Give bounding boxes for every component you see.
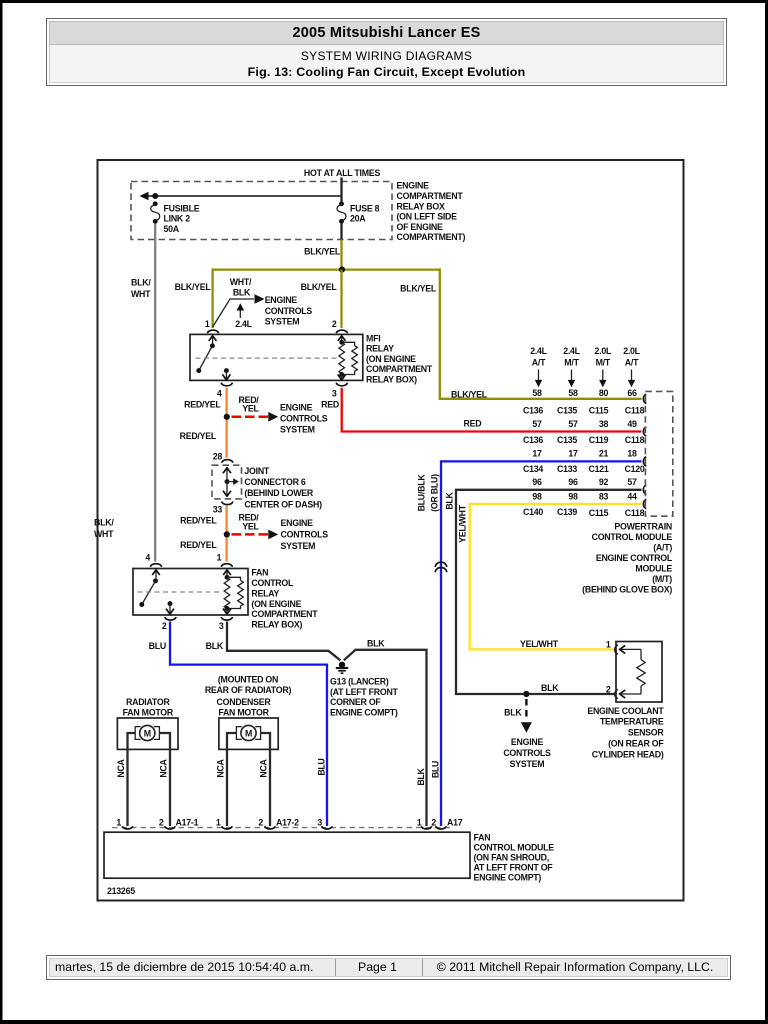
MFI relay box (190, 334, 363, 380)
svg-text:YEL/WHT: YEL/WHT (458, 504, 468, 543)
svg-text:C136: C136 (523, 406, 543, 416)
svg-text:NCA: NCA (116, 758, 126, 777)
svg-text:(A/T): (A/T) (653, 542, 672, 552)
svg-text:CONTROL MODULE: CONTROL MODULE (592, 532, 673, 542)
pin A17-1/2 cup (165, 826, 175, 829)
svg-text:JOINT: JOINT (244, 466, 270, 476)
label BLK/WHT lower (94, 518, 114, 540)
label WHT/BLK (230, 277, 252, 298)
svg-text:3: 3 (332, 388, 337, 398)
svg-text:2: 2 (332, 319, 337, 329)
svg-text:ENGINE: ENGINE (511, 737, 544, 747)
svg-text:(OR BLU): (OR BLU) (430, 474, 440, 512)
svg-text:57: 57 (532, 419, 542, 429)
svg-text:SYSTEM: SYSTEM (265, 317, 300, 327)
svg-text:BLK/YEL: BLK/YEL (451, 389, 488, 399)
wire bus inside relay box (143, 195, 342, 197)
svg-text:BLK: BLK (233, 288, 251, 298)
svg-text:BLK/YEL: BLK/YEL (304, 247, 341, 257)
svg-text:A17-1: A17-1 (176, 817, 199, 827)
svg-text:ENGINE CONTROL: ENGINE CONTROL (596, 553, 673, 563)
svg-text:RED: RED (464, 419, 482, 429)
svg-text:NCA: NCA (259, 758, 269, 777)
svg-text:NCA: NCA (216, 758, 226, 777)
svg-text:2: 2 (258, 817, 263, 827)
svg-text:(AT LEFT FRONT: (AT LEFT FRONT (330, 687, 399, 697)
svg-text:4: 4 (145, 553, 150, 563)
svg-text:CONTROLS: CONTROLS (265, 306, 313, 316)
fan control relay label (251, 568, 318, 630)
svg-text:CONNECTOR 6: CONNECTOR 6 (244, 477, 305, 487)
MFI relay label (366, 333, 433, 384)
PCM row 2 connectors C136 C135 C119 C118 (523, 435, 645, 445)
svg-text:COMPARTMENT: COMPARTMENT (251, 609, 318, 619)
svg-text:1: 1 (216, 817, 221, 827)
svg-text:FUSE 8: FUSE 8 (350, 203, 380, 213)
svg-text:RELAY BOX): RELAY BOX) (251, 620, 302, 630)
svg-text:M: M (245, 729, 252, 739)
pin A17/3 cup (322, 826, 332, 829)
svg-text:WHT: WHT (131, 289, 151, 299)
svg-text:C135: C135 (557, 406, 577, 416)
svg-text:57: 57 (568, 419, 578, 429)
svg-text:COMPARTMENT): COMPARTMENT) (397, 232, 466, 242)
wire RED/YEL from MFI pin 4 down (225, 388, 227, 458)
engine controls system label 2 (280, 403, 328, 435)
engine compartment relay box (dashed) (131, 182, 392, 240)
svg-text:CONTROLS: CONTROLS (281, 530, 329, 540)
arrow engine controls top (255, 294, 265, 303)
svg-text:(ON LEFT SIDE: (ON LEFT SIDE (397, 212, 458, 222)
svg-text:2.4L: 2.4L (563, 346, 580, 356)
label BLK/WHT upper (131, 278, 151, 299)
svg-text:58: 58 (532, 388, 542, 398)
svg-text:(ON ENGINE: (ON ENGINE (251, 599, 301, 609)
ECT sensor box (616, 642, 662, 703)
svg-text:CONDENSER: CONDENSER (217, 697, 272, 707)
MFI pin4 contact (222, 368, 230, 380)
svg-text:A/T: A/T (532, 358, 546, 368)
ground G13 label (330, 677, 399, 718)
PCM row 4 pins 96 96 92 57 (532, 477, 637, 487)
svg-text:CORNER OF: CORNER OF (330, 697, 381, 707)
svg-text:BLK: BLK (541, 683, 559, 693)
label 2.4L with up arrow (235, 303, 252, 329)
svg-text:57: 57 (627, 477, 637, 487)
svg-text:66: 66 (627, 388, 637, 398)
joint connector 6 (dashed) (212, 465, 242, 499)
condenser fan motor M2 (219, 718, 278, 826)
svg-text:20A: 20A (350, 214, 366, 224)
svg-text:M/T: M/T (564, 358, 579, 368)
PCM column header 2.4L M/T (563, 346, 580, 387)
svg-text:18: 18 (627, 448, 637, 458)
svg-text:BLK/: BLK/ (94, 518, 114, 528)
svg-text:C118: C118 (625, 508, 645, 518)
svg-text:96: 96 (568, 477, 578, 487)
svg-text:C118: C118 (625, 406, 645, 416)
svg-text:28: 28 (213, 452, 223, 462)
svg-text:ENGINE COMPT): ENGINE COMPT) (474, 872, 542, 882)
svg-text:FAN: FAN (251, 568, 268, 578)
svg-text:M/T: M/T (596, 358, 611, 368)
svg-text:C133: C133 (557, 464, 577, 474)
svg-text:1: 1 (116, 817, 121, 827)
svg-text:(ON ENGINE: (ON ENGINE (366, 354, 416, 364)
svg-text:HOT AT ALL TIMES: HOT AT ALL TIMES (304, 168, 381, 178)
svg-text:SENSOR: SENSOR (628, 728, 665, 738)
svg-text:MFI: MFI (366, 333, 380, 343)
svg-text:RED/YEL: RED/YEL (180, 540, 217, 550)
svg-text:CYLINDER HEAD): CYLINDER HEAD) (592, 749, 664, 759)
svg-text:BLU: BLU (431, 761, 441, 778)
svg-text:COMPARTMENT: COMPARTMENT (397, 191, 464, 201)
svg-text:A17: A17 (447, 817, 463, 827)
label radiator fan motor (123, 697, 174, 717)
svg-text:BLK/: BLK/ (131, 278, 151, 288)
svg-text:FAN: FAN (474, 833, 491, 843)
fan relay dashed divider (138, 591, 221, 593)
svg-text:2.0L: 2.0L (594, 346, 611, 356)
svg-text:21: 21 (599, 448, 609, 458)
svg-text:BLK: BLK (504, 707, 522, 717)
PCM pin arc BLK (643, 485, 646, 494)
connector A17 dashed line (112, 827, 452, 829)
svg-text:BLK/YEL: BLK/YEL (400, 284, 437, 294)
svg-text:ENGINE COOLANT: ENGINE COOLANT (587, 706, 664, 716)
svg-text:MODULE: MODULE (635, 563, 672, 573)
svg-text:BLK/YEL: BLK/YEL (175, 282, 212, 292)
label RED/YEL tap 2 (238, 513, 259, 532)
svg-text:A17-2: A17-2 (276, 817, 299, 827)
svg-text:92: 92 (599, 477, 609, 487)
dashed RED tap arrow 2 (232, 533, 269, 536)
svg-text:YEL: YEL (242, 404, 259, 414)
svg-text:RED: RED (321, 399, 339, 409)
svg-text:YEL: YEL (242, 521, 259, 531)
PCM pin arc RED (643, 427, 646, 436)
svg-text:WHT: WHT (94, 529, 114, 539)
wire BLK/YEL right branch down (440, 268, 642, 398)
svg-text:C119: C119 (589, 435, 609, 445)
svg-text:98: 98 (532, 491, 542, 501)
svg-text:M: M (144, 729, 151, 739)
svg-text:C121: C121 (588, 464, 608, 474)
engine compartment relay box label (397, 181, 466, 243)
svg-text:96: 96 (532, 477, 542, 487)
svg-text:SYSTEM: SYSTEM (280, 425, 315, 435)
PCM row 1 connectors C136 C135 C115 C118 (523, 406, 645, 416)
wire BLK/YEL fuse8 below fuse (340, 224, 342, 241)
page border frame (0, 0, 768, 3)
powertrain control module box (dashed) (645, 391, 672, 516)
svg-text:C134: C134 (523, 464, 543, 474)
header title block (46, 18, 727, 86)
svg-text:BLU: BLU (149, 641, 166, 651)
powertrain control module label (582, 521, 673, 594)
svg-text:NCA: NCA (159, 758, 169, 777)
svg-text:(ON FAN SHROUD,: (ON FAN SHROUD, (474, 853, 549, 863)
svg-text:49: 49 (627, 419, 637, 429)
fan relay switch (139, 570, 159, 607)
svg-text:AT LEFT FRONT OF: AT LEFT FRONT OF (474, 862, 554, 872)
junction RED/YEL tap 1 (224, 414, 230, 420)
wire battery feed vertical (340, 178, 342, 204)
svg-text:(M/T): (M/T) (652, 574, 672, 584)
svg-text:2: 2 (431, 817, 436, 827)
pin 33 joint connector (222, 502, 233, 505)
svg-text:2.0L: 2.0L (623, 346, 640, 356)
label mounted on rear of radiator (205, 675, 292, 695)
pin A17-2/2 cup (265, 826, 275, 829)
arrow feed left (140, 192, 149, 200)
wire BLK/YEL center branch to MFI pin 2 (340, 270, 342, 328)
svg-text:ENGINE: ENGINE (265, 295, 298, 305)
svg-text:C135: C135 (557, 435, 577, 445)
svg-text:COMPARTMENT: COMPARTMENT (366, 364, 433, 374)
svg-text:FAN MOTOR: FAN MOTOR (123, 707, 174, 717)
fuse 8 20A (337, 201, 380, 223)
svg-text:YEL/WHT: YEL/WHT (520, 639, 559, 649)
PCM row 3 connectors C134 C133 C121 C120 (523, 464, 645, 474)
wire BLK/WHT left vertical (fusible link to fan control relay pin 4) (154, 224, 156, 562)
pin A17/1 cup (421, 826, 431, 829)
PCM row 3 pins 17 17 21 18 (532, 448, 637, 458)
svg-text:(ON REAR OF: (ON REAR OF (608, 739, 664, 749)
svg-text:50A: 50A (164, 224, 180, 234)
PCM pin arc BLK/YEL (643, 394, 646, 403)
label condenser fan motor (217, 697, 272, 717)
svg-text:BLK: BLK (367, 638, 385, 648)
svg-text:CONTROLS: CONTROLS (280, 414, 328, 424)
svg-text:ENGINE COMPT): ENGINE COMPT) (330, 708, 398, 718)
joint connector 6 label (244, 466, 322, 510)
wire BLK/YEL vertical to junction (340, 240, 342, 270)
svg-text:38: 38 (599, 419, 609, 429)
footer bar (46, 955, 731, 980)
pin labels connector A17-2 (216, 817, 299, 827)
svg-text:(BEHIND GLOVE BOX): (BEHIND GLOVE BOX) (582, 584, 672, 594)
svg-text:LINK 2: LINK 2 (164, 214, 191, 224)
junction RED/YEL tap 2 (224, 531, 230, 537)
label RED/YEL tap 1 (238, 395, 259, 414)
ECT thermistor (620, 645, 646, 698)
pin A17/2 cup (436, 826, 446, 829)
svg-text:CONTROLS: CONTROLS (503, 748, 551, 758)
fan control relay box (133, 569, 248, 616)
svg-text:RED/YEL: RED/YEL (180, 431, 217, 441)
PCM column header 2.4L A/T (530, 346, 547, 387)
wire BLU PCM row 3 (441, 461, 642, 826)
pin labels connector A17-1 (116, 817, 198, 827)
svg-text:BLU: BLU (317, 758, 327, 775)
svg-text:98: 98 (568, 491, 578, 501)
svg-text:2.4L: 2.4L (530, 346, 547, 356)
pin A17-2/1 cup (222, 826, 232, 829)
wire BLK/YEL horizontal bus (213, 268, 440, 270)
engine controls system label top (265, 295, 313, 327)
svg-text:RED/YEL: RED/YEL (184, 400, 221, 410)
wire YEL/WHT PCM row 5 to ECT pin 1 (470, 504, 642, 649)
svg-text:A/T: A/T (625, 358, 639, 368)
svg-text:1: 1 (417, 817, 422, 827)
svg-text:33: 33 (213, 505, 223, 515)
wire BLK from relay pin 3 to ground (227, 622, 340, 661)
pin 2 fan control relay (165, 617, 176, 620)
svg-text:(BEHIND LOWER: (BEHIND LOWER (244, 488, 313, 498)
MFI switch (196, 336, 216, 373)
svg-text:BLU/BLK: BLU/BLK (417, 474, 427, 512)
svg-text:C139: C139 (557, 507, 577, 517)
svg-text:C136: C136 (523, 435, 543, 445)
svg-text:CONTROL MODULE: CONTROL MODULE (474, 843, 555, 853)
svg-text:RELAY: RELAY (366, 344, 394, 354)
svg-text:BLK: BLK (445, 491, 455, 509)
PCM pin arc BLU (643, 457, 646, 466)
svg-text:83: 83 (599, 491, 609, 501)
svg-text:RELAY BOX: RELAY BOX (397, 201, 445, 211)
svg-text:2: 2 (162, 621, 167, 631)
dashed RED tap arrow 1 (232, 416, 269, 419)
joint connector internal (223, 468, 239, 496)
svg-text:3: 3 (219, 621, 224, 631)
radiator fan motor M1 (117, 718, 178, 826)
svg-text:2.4L: 2.4L (235, 319, 252, 329)
svg-text:SYSTEM: SYSTEM (510, 759, 545, 769)
pin labels connector A17 (317, 817, 462, 827)
svg-text:1: 1 (205, 319, 210, 329)
PCM pin arc YEL/WHT (643, 499, 646, 508)
engine controls system label 4 (503, 737, 551, 769)
svg-text:OF ENGINE: OF ENGINE (397, 222, 444, 232)
svg-text:2: 2 (606, 685, 611, 695)
svg-text:(MOUNTED ON: (MOUNTED ON (218, 675, 278, 685)
PCM row 5 pins 98 98 83 44 (532, 491, 637, 501)
fusible link 2 50A (151, 201, 200, 234)
svg-text:4: 4 (217, 388, 222, 398)
svg-text:C118: C118 (625, 435, 645, 445)
PCM row 2 pins 57 57 38 49 (532, 419, 637, 429)
wire RED/YEL below joint connector (225, 506, 227, 562)
svg-text:RED/YEL: RED/YEL (180, 515, 217, 525)
wire WHT/BLK tap to engine controls (213, 299, 254, 327)
wire BLK/YEL left branch to MFI pin 1 (211, 268, 213, 328)
svg-text:C115: C115 (589, 508, 609, 518)
svg-text:RADIATOR: RADIATOR (126, 697, 171, 707)
svg-text:58: 58 (568, 388, 578, 398)
wire BLK PCM row 4 to ECT pin 2 (456, 490, 642, 694)
inline connector break on BLU (435, 562, 446, 572)
svg-text:ENGINE: ENGINE (280, 403, 313, 413)
svg-text:2: 2 (159, 817, 164, 827)
dashed BLK tap arrow down (525, 699, 527, 719)
svg-text:CENTER OF DASH): CENTER OF DASH) (244, 499, 322, 509)
junction BLK/YEL (339, 267, 345, 273)
pin 3 fan control relay (221, 617, 232, 620)
svg-text:1: 1 (217, 553, 222, 563)
wire RED from MFI pin 3 to PCM (342, 388, 642, 432)
svg-text:RELAY: RELAY (251, 588, 279, 598)
svg-text:G13 (LANCER): G13 (LANCER) (330, 677, 389, 687)
svg-text:C140: C140 (523, 507, 543, 517)
svg-text:POWERTRAIN: POWERTRAIN (614, 521, 672, 531)
junction BLK engine controls tap (523, 691, 529, 697)
fan relay coil (223, 570, 243, 614)
svg-text:BLK: BLK (416, 767, 426, 785)
svg-text:C120: C120 (624, 464, 644, 474)
PCM row 1 pins 58 58 80 66 (532, 388, 637, 398)
svg-text:SYSTEM: SYSTEM (281, 541, 316, 551)
diagram frame (98, 160, 684, 901)
PCM row 5 connectors C140 C139 C115 C118 (523, 507, 645, 518)
MFI dashed divider (196, 357, 338, 359)
MFI coil (338, 336, 358, 380)
svg-text:BLK: BLK (206, 641, 224, 651)
ground G13 (336, 662, 348, 674)
svg-text:3: 3 (317, 817, 322, 827)
svg-text:17: 17 (568, 448, 578, 458)
svg-text:REAR OF RADIATOR): REAR OF RADIATOR) (205, 685, 292, 695)
fan control module label (474, 833, 555, 883)
ECT sensor label (587, 706, 664, 760)
svg-text:ENGINE: ENGINE (397, 181, 430, 191)
svg-text:C115: C115 (589, 406, 609, 416)
svg-text:CONTROL: CONTROL (251, 578, 294, 588)
svg-text:FAN MOTOR: FAN MOTOR (218, 707, 269, 717)
svg-text:TEMPERATURE: TEMPERATURE (600, 717, 664, 727)
svg-text:FUSIBLE: FUSIBLE (164, 203, 200, 213)
svg-text:17: 17 (532, 448, 542, 458)
wire BLU from relay pin 2 to module pin 3 (170, 622, 327, 827)
svg-text:1: 1 (606, 640, 611, 650)
PCM column header 2.0L M/T (594, 346, 611, 387)
svg-text:80: 80 (599, 388, 609, 398)
fan control module box (104, 832, 470, 878)
svg-text:RELAY BOX): RELAY BOX) (366, 375, 417, 385)
junction fusible link tap (152, 193, 158, 199)
svg-text:WHT/: WHT/ (230, 277, 252, 287)
PCM column header 2.0L A/T (623, 346, 640, 387)
svg-text:213265: 213265 (107, 886, 135, 896)
wire BLK ground to module pin 1 (344, 650, 427, 826)
svg-text:ENGINE: ENGINE (281, 518, 314, 528)
engine controls system label 3 (281, 518, 329, 551)
svg-text:BLK/YEL: BLK/YEL (301, 282, 338, 292)
fan relay pin2 contact (166, 601, 174, 614)
pin A17-1/1 cup (122, 826, 132, 829)
svg-text:44: 44 (627, 491, 637, 501)
